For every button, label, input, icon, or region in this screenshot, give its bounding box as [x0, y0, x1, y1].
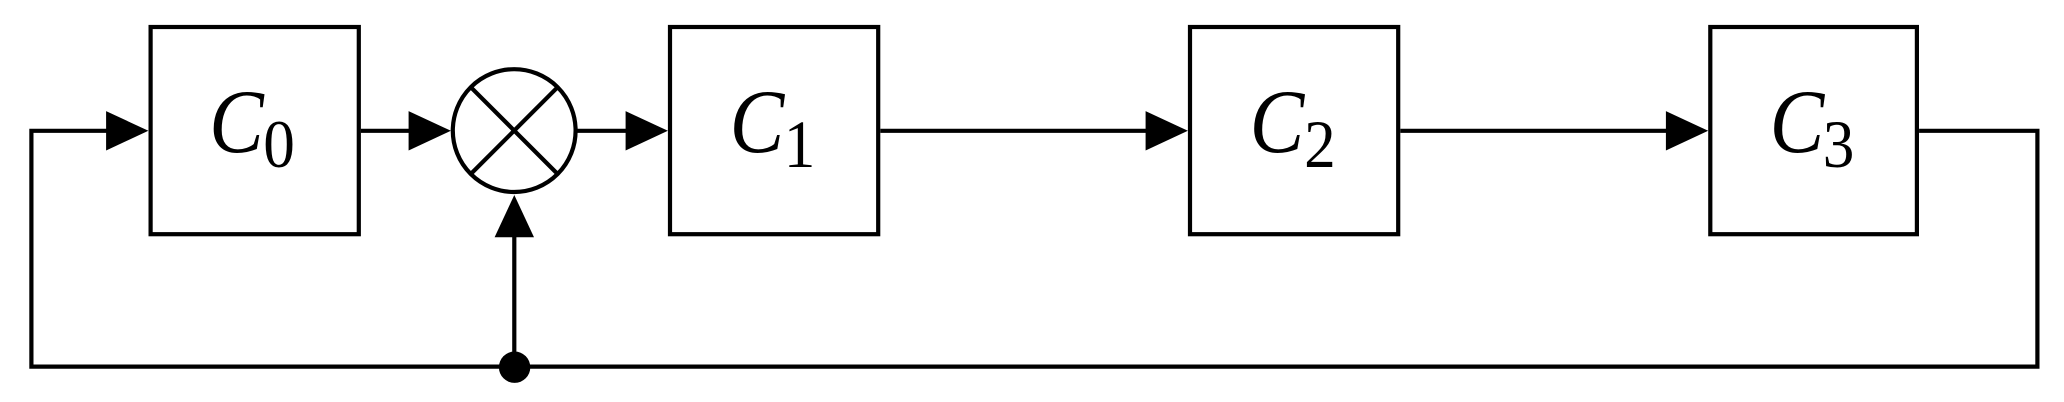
wire C0 to multiplier	[361, 129, 414, 133]
block C1	[670, 27, 878, 234]
wire multiplier to C1	[577, 129, 631, 133]
wire C2 to C3	[1400, 129, 1671, 133]
svg-text:3: 3	[1823, 107, 1855, 183]
svg-text:C: C	[730, 71, 786, 172]
multiplier M1 (circle with X)	[453, 69, 576, 192]
svg-text:C: C	[209, 71, 265, 172]
svg-text:2: 2	[1304, 107, 1336, 183]
block C0	[151, 27, 359, 234]
svg-text:C: C	[1770, 71, 1826, 172]
arrowhead into C3	[1666, 111, 1708, 150]
junction dot on feedback wire	[499, 352, 530, 383]
wire feedback loop (C3 output, right vertical, bottom, left vertical, into C0 input)	[31, 131, 2037, 367]
arrowhead into C2	[1146, 111, 1188, 150]
svg-text:1: 1	[784, 107, 816, 183]
wire C1 to C2	[880, 129, 1151, 133]
arrowhead into C0	[106, 111, 148, 150]
arrowhead into multiplier bottom	[495, 195, 534, 237]
arrowhead into C1	[626, 111, 668, 150]
svg-text:0: 0	[263, 107, 295, 183]
block C3	[1710, 27, 1917, 234]
wire junction up to multiplier	[512, 232, 516, 367]
arrowhead into multiplier	[409, 111, 451, 150]
block C2	[1190, 27, 1398, 234]
svg-text:C: C	[1250, 71, 1306, 172]
